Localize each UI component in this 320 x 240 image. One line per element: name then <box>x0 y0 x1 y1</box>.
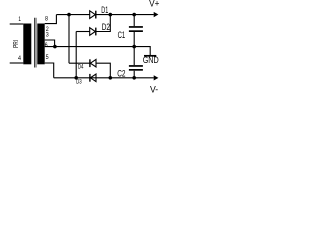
junction C1 top <box>132 13 136 17</box>
capacitor C2 <box>129 65 143 71</box>
svg-text:C1: C1 <box>118 30 126 41</box>
wire D2 anode row <box>76 31 90 33</box>
wire node A vertical <box>68 15 70 64</box>
svg-text:V+: V+ <box>149 0 159 9</box>
wire pin1 lead <box>10 23 24 25</box>
wire C2 leads <box>133 47 135 78</box>
wire pin8 to top rail <box>45 15 57 24</box>
wire pin4 lead <box>10 62 24 64</box>
transformer core <box>34 18 36 68</box>
wire D4 anode down to V- <box>96 63 110 78</box>
wire bottom rail V- <box>54 77 154 79</box>
ground terminal GND <box>144 55 156 57</box>
svg-text:5: 5 <box>46 54 49 61</box>
svg-text:D4: D4 <box>78 63 84 70</box>
svg-text:4: 4 <box>18 55 21 62</box>
diode D4 <box>90 59 96 67</box>
wire top rail right (V+ net) <box>96 14 154 16</box>
svg-text:D2: D2 <box>102 22 110 33</box>
capacitor C1 <box>129 26 143 32</box>
diode D1 <box>90 11 96 19</box>
svg-text:GND: GND <box>143 55 159 65</box>
svg-text:D1: D1 <box>101 5 108 16</box>
svg-text:V-: V- <box>150 85 158 95</box>
wire D4 cathode row <box>69 62 90 64</box>
junction node A top <box>67 13 71 17</box>
wire pin3 center tap <box>45 40 55 47</box>
svg-text:8: 8 <box>45 16 48 23</box>
arrow V- <box>154 75 159 80</box>
svg-text:1: 1 <box>18 16 21 23</box>
wire node B vertical <box>75 32 77 78</box>
svg-text:C2: C2 <box>117 68 125 78</box>
junction center tap <box>53 45 57 49</box>
svg-text:6: 6 <box>45 42 48 49</box>
junction D2 cathode at V+ <box>109 13 113 17</box>
transformer TR secondary winding <box>37 24 44 65</box>
diode D3 <box>90 74 96 82</box>
wire top rail left (node A) <box>56 14 90 16</box>
svg-text:D3: D3 <box>76 79 82 86</box>
svg-text:PRI: PRI <box>11 40 20 48</box>
wire pin5 down <box>45 63 54 78</box>
arrow V+ <box>154 12 159 17</box>
transformer TR primary winding <box>23 24 31 65</box>
junction C2 bottom <box>132 76 136 80</box>
wire D2 cathode up to V+ <box>96 15 110 32</box>
svg-text:3: 3 <box>46 31 49 38</box>
junction D4 anode at V- <box>109 76 113 80</box>
junction node B bottom <box>74 76 78 80</box>
junction C1/C2 mid <box>132 45 136 49</box>
wire C1 leads <box>133 15 135 47</box>
diode D2 <box>90 28 96 36</box>
wire mid rail GND <box>45 47 151 56</box>
